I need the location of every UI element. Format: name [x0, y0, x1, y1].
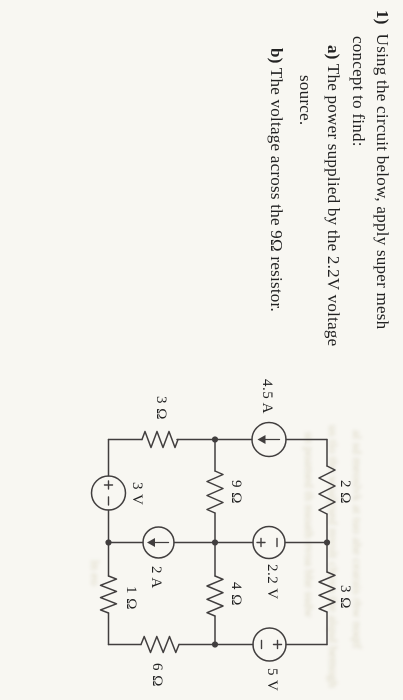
junction node top: [324, 539, 330, 545]
wire left rail mid: [177, 439, 252, 441]
wire top rail right segment: [326, 612, 328, 645]
junction node center: [212, 539, 218, 545]
current source I1 4.5A: [252, 423, 286, 457]
junction node bottom: [105, 539, 111, 545]
label 1ohm: [122, 586, 139, 610]
resistor 3ohm (left rail): [142, 432, 178, 448]
wire bottom rail seg2: [108, 510, 110, 576]
voltage source 5V: [253, 628, 286, 661]
resistor 1ohm: [101, 576, 117, 613]
label 3V: [128, 482, 145, 505]
wire bottom rail seg3: [108, 613, 110, 645]
plus minus 5V: plus top minus bottom: [262, 641, 282, 649]
voltage source 2.2V: [253, 527, 285, 559]
plus minus 3V: plus left minus right: [105, 481, 113, 505]
current source 2A: [143, 527, 174, 558]
wire left rail upper: [286, 439, 327, 441]
problem statement text: [372, 10, 392, 329]
label 2.2V: [263, 564, 280, 600]
label 5V: [263, 668, 280, 691]
resistor 4ohm: [207, 576, 223, 616]
resistor 6ohm: [141, 637, 179, 653]
label 2ohm: [336, 480, 353, 504]
wire mid vertical upper: [285, 542, 327, 544]
wire bottom rail seg1: [108, 440, 110, 477]
label 3ohm top: [336, 585, 353, 609]
wire mid vertical middle: [174, 542, 253, 544]
label 6ohm: [148, 663, 165, 687]
label 4ohm: [227, 582, 244, 606]
plus minus 2.2V: minus top plus bottom: [257, 539, 277, 547]
junction node left: [212, 436, 218, 442]
label 3ohm left: [152, 396, 169, 420]
wire middle rail seg3: [214, 616, 216, 645]
wire middle rail seg2: [214, 513, 216, 576]
wire right rail mid: [179, 644, 253, 646]
resistor 9ohm: [207, 471, 223, 513]
wire top rail left segment: [326, 440, 328, 467]
resistor 2ohm (top rail): [319, 466, 335, 514]
wire top rail mid segment: [326, 514, 328, 572]
label 9ohm: [227, 480, 244, 504]
voltage source 3V: [92, 476, 126, 510]
wire left rail lower: [109, 439, 143, 441]
bleed-through ghost text: [349, 430, 365, 649]
junction node right: [212, 641, 218, 647]
label 4.5A: [258, 379, 275, 414]
resistor 3ohm (top rail right): [319, 572, 335, 612]
label 2A: [147, 566, 164, 589]
wire right rail upper: [286, 644, 327, 646]
wire mid vertical lower: [109, 542, 144, 544]
wire right rail lower: [109, 644, 142, 646]
wire middle rail seg1: [214, 440, 216, 472]
